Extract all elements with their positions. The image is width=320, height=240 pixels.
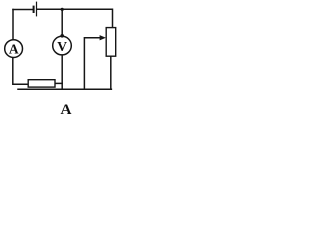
- svg-text:A: A: [61, 101, 72, 118]
- svg-text:A: A: [9, 42, 19, 57]
- svg-text:V: V: [57, 39, 67, 54]
